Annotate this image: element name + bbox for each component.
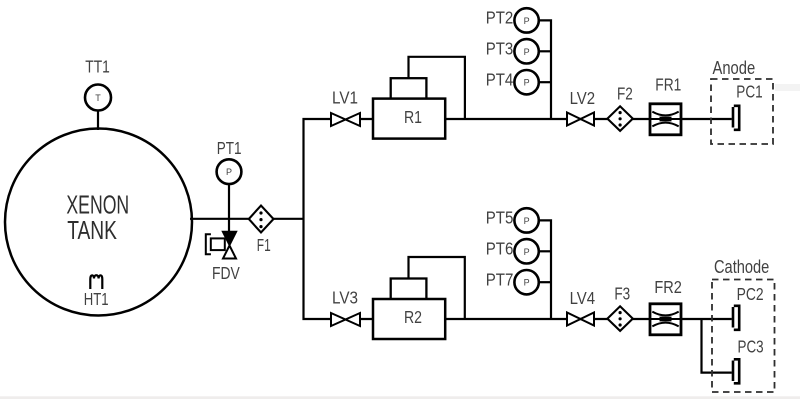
svg-text:LV1: LV1	[332, 88, 358, 108]
svg-text:P: P	[524, 278, 530, 288]
svg-text:P: P	[524, 78, 530, 88]
svg-text:FDV: FDV	[212, 263, 240, 283]
svg-text:F2: F2	[617, 83, 633, 103]
svg-text:R2: R2	[404, 307, 422, 327]
svg-text:TT1: TT1	[85, 57, 110, 77]
svg-text:P: P	[524, 216, 530, 226]
svg-text:LV3: LV3	[332, 288, 358, 308]
svg-text:PC1: PC1	[736, 82, 762, 102]
svg-text:PT1: PT1	[217, 138, 242, 158]
svg-text:P: P	[524, 16, 530, 26]
svg-text:LV4: LV4	[570, 288, 596, 308]
svg-text:T: T	[95, 93, 101, 103]
svg-text:F3: F3	[614, 284, 630, 304]
svg-text:FR2: FR2	[654, 277, 682, 297]
svg-text:PT2: PT2	[486, 8, 514, 28]
svg-text:Anode: Anode	[713, 58, 756, 78]
svg-text:PT5: PT5	[486, 208, 514, 228]
svg-text:Cathode: Cathode	[714, 257, 769, 277]
svg-text:PT7: PT7	[486, 270, 514, 290]
svg-text:LV2: LV2	[570, 88, 596, 108]
svg-text:FR1: FR1	[655, 75, 681, 95]
svg-text:PT4: PT4	[486, 70, 514, 90]
svg-text:PT3: PT3	[486, 39, 514, 59]
svg-text:F1: F1	[257, 235, 271, 255]
svg-text:P: P	[226, 167, 232, 177]
svg-text:TANK: TANK	[67, 215, 117, 245]
svg-text:R1: R1	[404, 107, 422, 127]
svg-text:PC3: PC3	[738, 336, 764, 356]
svg-text:PT6: PT6	[486, 239, 514, 259]
svg-text:P: P	[524, 247, 530, 257]
svg-text:P: P	[524, 47, 530, 57]
svg-text:HT1: HT1	[84, 289, 109, 309]
svg-text:PC2: PC2	[737, 284, 764, 304]
